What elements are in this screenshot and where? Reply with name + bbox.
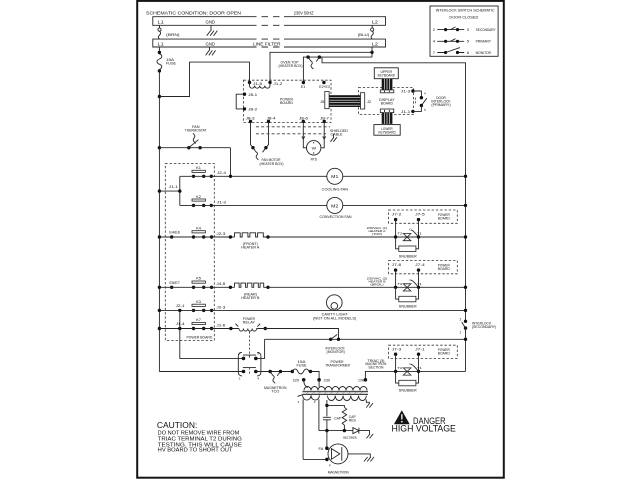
svg-text:BOARD: BOARD xyxy=(438,217,451,221)
svg-text:(SECONDARY): (SECONDARY) xyxy=(472,325,496,329)
svg-text:4: 4 xyxy=(257,376,259,380)
svg-text:LINE FILTER: LINE FILTER xyxy=(253,42,281,47)
cavity light xyxy=(313,295,356,321)
wire: L2 to J1-2 riser xyxy=(270,52,372,82)
filament leads xyxy=(303,399,319,459)
svg-text:J1-6: J1-6 xyxy=(216,323,225,327)
svg-text:7: 7 xyxy=(433,50,435,55)
HV capacitor branch xyxy=(323,400,342,431)
svg-text:K2: K2 xyxy=(196,195,201,199)
svg-text:INTERLOCK SWITCH SCHEMATIC: INTERLOCK SWITCH SCHEMATIC xyxy=(436,8,495,13)
svg-text:J2-3: J2-3 xyxy=(216,232,225,236)
svg-text:(TOP): (TOP) xyxy=(372,232,382,236)
svg-text:FUSE: FUSE xyxy=(297,363,308,367)
primary winding xyxy=(304,386,367,390)
oven top thermostat (heater box TCO) xyxy=(279,55,322,69)
svg-text:230V 50HZ: 230V 50HZ xyxy=(294,10,314,16)
svg-text:8: 8 xyxy=(257,351,259,355)
svg-text:(PRIMARY): (PRIMARY) xyxy=(431,103,450,107)
relay board dashed box (power board) xyxy=(165,164,214,341)
svg-text:K1: K1 xyxy=(196,166,201,170)
svg-text:J1-1: J1-1 xyxy=(401,110,411,114)
svg-text:GND: GND xyxy=(206,42,216,47)
svg-text:J4-5: J4-5 xyxy=(216,282,225,286)
svg-text:RECTIFIER: RECTIFIER xyxy=(343,436,357,440)
interlock secondary on right rail xyxy=(460,318,497,335)
svg-text:J2-3: J2-3 xyxy=(216,305,225,309)
relay K5 xyxy=(169,277,225,289)
wire: thermostat run to E1 riser xyxy=(303,57,372,82)
svg-text:CONVECTION FAN: CONVECTION FAN xyxy=(320,215,352,219)
svg-text:T1: T1 xyxy=(417,282,422,286)
svg-text:MAGNETRON: MAGNETRON xyxy=(328,471,349,475)
svg-text:J1-5: J1-5 xyxy=(253,82,262,86)
svg-text:J7-4: J7-4 xyxy=(415,263,425,267)
shield ground xyxy=(333,134,335,138)
svg-text:(MONITOR): (MONITOR) xyxy=(327,350,345,354)
svg-text:2: 2 xyxy=(460,318,462,322)
filament winding xyxy=(303,395,320,400)
power board (main) dashed box xyxy=(244,80,332,122)
node: right rail M1 xyxy=(464,175,467,178)
svg-text:J8-1: J8-1 xyxy=(248,93,257,97)
RTD sensor xyxy=(302,121,326,161)
node: rail at fan row xyxy=(158,146,161,149)
relay K3 xyxy=(176,300,226,312)
connector (BLU) between buses xyxy=(358,25,374,39)
upper keyboard ribbon connector xyxy=(382,79,393,90)
interlock monitor wire xyxy=(265,338,466,340)
display board dashed box xyxy=(359,88,414,115)
svg-text:KEYBOARD: KEYBOARD xyxy=(378,131,396,135)
lower keyboard ribbon connector xyxy=(380,109,394,113)
motor M2 convection fan xyxy=(320,197,352,219)
svg-text:DOOR CLOSED: DOOR CLOSED xyxy=(449,14,478,19)
HV winding xyxy=(328,396,367,401)
svg-text:PRIMARY: PRIMARY xyxy=(476,39,492,44)
svg-text:J8-3: J8-3 xyxy=(246,116,255,120)
svg-text:3: 3 xyxy=(467,27,469,32)
svg-text:L2: L2 xyxy=(372,19,379,24)
power relay coil xyxy=(235,317,267,331)
svg-text:SNUBBER: SNUBBER xyxy=(399,389,417,393)
relay K1 xyxy=(192,166,226,178)
svg-text:SECONDARY: SECONDARY xyxy=(476,27,496,32)
caution note xyxy=(157,420,242,454)
core xyxy=(303,391,369,394)
heater box fan motor TCO circuit xyxy=(251,121,284,165)
node: rail junction y=96.5 xyxy=(158,95,161,98)
wire: M2 convection fan row xyxy=(180,204,466,206)
svg-text:K4: K4 xyxy=(196,226,201,230)
door interlock (primary) xyxy=(401,89,451,114)
svg-text:E5/E7: E5/E7 xyxy=(169,281,180,285)
svg-text:SNUBBER: SNUBBER xyxy=(399,254,417,258)
svg-text:J8-6: J8-6 xyxy=(299,116,308,120)
svg-text:SNUBBER: SNUBBER xyxy=(399,305,417,309)
svg-text:1: 1 xyxy=(460,331,462,335)
wire: L2 drop and junction xyxy=(370,47,373,57)
connector (BRN) between buses xyxy=(158,25,180,39)
svg-text:BOARD: BOARD xyxy=(438,267,451,271)
pin J1-2 xyxy=(268,81,271,84)
upper keyboard box xyxy=(374,68,398,79)
15A fuse (transformer primary) xyxy=(291,360,313,374)
vertical link cavity row to relay row xyxy=(179,310,181,328)
node: right rail heater B xyxy=(464,286,467,289)
svg-text:6: 6 xyxy=(239,351,241,355)
svg-text:HEATER A: HEATER A xyxy=(241,246,260,250)
pin J8-1 with link to J8-2 xyxy=(236,94,244,109)
svg-text:POWER BOARD: POWER BOARD xyxy=(187,336,213,340)
svg-text:HIGH VOLTAGE: HIGH VOLTAGE xyxy=(392,424,457,434)
svg-text:RES: RES xyxy=(349,419,357,423)
triac 2 xyxy=(394,270,422,291)
node: rail at cavity light row xyxy=(158,309,161,312)
svg-text:RTD: RTD xyxy=(311,157,318,161)
svg-text:J7-6: J7-6 xyxy=(392,263,402,267)
svg-text:J8-2: J8-2 xyxy=(248,108,257,112)
left L1 rail xyxy=(158,71,160,372)
power transformer xyxy=(293,360,368,404)
wire: monitor wire to relay contact xyxy=(256,339,265,358)
svg-text:L1: L1 xyxy=(158,19,165,24)
svg-text:2: 2 xyxy=(239,376,241,380)
wire: relay contact feed from K7 row xyxy=(180,329,244,359)
primary taps xyxy=(302,378,306,382)
svg-text:J5: J5 xyxy=(320,100,324,104)
page border frame xyxy=(137,1,504,478)
svg-text:J7-2: J7-2 xyxy=(392,213,402,217)
wire: L2 branch down to right rail xyxy=(322,57,466,321)
svg-text:BOARD: BOARD xyxy=(381,102,394,106)
wire: fuse to 230 tap xyxy=(311,372,320,380)
heater B element xyxy=(235,283,270,300)
wire: heater B row right xyxy=(268,286,466,288)
svg-text:230: 230 xyxy=(324,379,331,383)
svg-text:COOLING FAN: COOLING FAN xyxy=(322,187,349,191)
svg-text:THERMOSTAT: THERMOSTAT xyxy=(185,129,207,133)
wire: rail to power board J1-5 xyxy=(159,62,249,96)
motor M1 cooling fan xyxy=(322,168,349,191)
power board box (triac 3) xyxy=(389,345,458,358)
triac 3 xyxy=(394,354,422,375)
interlock switch schematic box (top right) xyxy=(430,6,498,56)
svg-text:E4/E6: E4/E6 xyxy=(169,231,180,235)
bus bar 2 (line filter bus) xyxy=(153,39,386,47)
svg-text:J2-1: J2-1 xyxy=(176,304,185,308)
svg-text:SCHEMATIC CONDITION: DOOR OPEN: SCHEMATIC CONDITION: DOOR OPEN xyxy=(146,10,242,16)
fan thermostat xyxy=(185,125,207,149)
wire: heater B row left xyxy=(159,286,234,288)
svg-text:SECTION: SECTION xyxy=(368,366,384,370)
svg-text:T2: T2 xyxy=(397,282,402,286)
svg-text:HEATER B: HEATER B xyxy=(241,296,260,300)
wire: rail bottom to relay contact xyxy=(159,371,243,373)
node: rail at heater A row xyxy=(158,235,161,238)
svg-text:T2: T2 xyxy=(397,232,402,236)
svg-text:E1: E1 xyxy=(301,85,306,89)
svg-text:(BLU): (BLU) xyxy=(358,32,370,37)
node: right rail M2 xyxy=(464,204,467,207)
svg-text:K5: K5 xyxy=(196,277,201,281)
pin E1 xyxy=(302,81,305,84)
svg-text:M1: M1 xyxy=(331,174,339,179)
bus bar 1 (top supply bus) xyxy=(153,17,386,26)
wire: heater A row left xyxy=(159,236,234,238)
svg-text:CAUTION:: CAUTION: xyxy=(157,420,197,430)
relay K7 (power relay drive) xyxy=(176,318,226,330)
svg-text:E2+E3: E2+E3 xyxy=(319,85,330,89)
svg-text:M2: M2 xyxy=(331,203,339,208)
node: right rail heater A xyxy=(464,235,467,238)
pin E2+E3 xyxy=(322,81,325,84)
svg-text:J7-3: J7-3 xyxy=(392,348,402,352)
wire: COM to right rail (triac 3 row) xyxy=(365,371,465,379)
right rail lower part xyxy=(465,328,467,371)
svg-text:(BROIL): (BROIL) xyxy=(370,282,383,286)
snubber 2 xyxy=(396,287,419,308)
svg-text:T1: T1 xyxy=(417,366,422,370)
lower keyboard box xyxy=(374,125,400,136)
svg-text:CAP: CAP xyxy=(334,417,342,421)
node: rail at power relay row xyxy=(158,327,161,330)
svg-text:J1-2: J1-2 xyxy=(273,82,282,86)
svg-text:TRANSFORMER: TRANSFORMER xyxy=(325,364,350,368)
HV winding ground xyxy=(366,400,373,408)
svg-text:5: 5 xyxy=(424,108,426,112)
wire: M1 cooling fan row xyxy=(180,175,466,177)
triac 1 xyxy=(394,220,422,241)
snubber 1 xyxy=(396,237,419,258)
node: rail at heater B row xyxy=(158,286,161,289)
svg-text:J1-3: J1-3 xyxy=(401,90,411,94)
wire: fan thermostat row xyxy=(159,147,230,149)
svg-text:TCO: TCO xyxy=(271,389,279,393)
svg-text:(HEATER BOX): (HEATER BOX) xyxy=(260,162,284,166)
svg-text:KEYBOARD: KEYBOARD xyxy=(378,74,396,78)
wire: coil to monitor junction xyxy=(257,329,339,340)
svg-text:8: 8 xyxy=(467,50,469,55)
svg-text:220: 220 xyxy=(293,379,300,383)
svg-text:CABLE: CABLE xyxy=(331,133,344,137)
svg-text:W: W xyxy=(312,146,317,150)
svg-text:J8-7: J8-7 xyxy=(320,116,329,120)
vertical link and J1-1 feed xyxy=(179,176,181,205)
magnetron xyxy=(303,431,374,475)
svg-text:J7-5: J7-5 xyxy=(415,213,425,217)
svg-text:L1: L1 xyxy=(158,42,165,47)
svg-text:K3: K3 xyxy=(196,300,201,304)
node: right rail cavity light xyxy=(464,309,467,312)
relay K2 xyxy=(192,195,226,207)
svg-text:HV BOARD TO SHORT OUT: HV BOARD TO SHORT OUT xyxy=(158,447,233,453)
HV rectifier diode xyxy=(319,428,373,441)
svg-text:(HEATER BOX): (HEATER BOX) xyxy=(279,64,303,68)
svg-text:J2: J2 xyxy=(367,100,371,104)
snubber 3 xyxy=(396,371,419,392)
svg-text:L2: L2 xyxy=(372,42,379,47)
shielded cable dashed lines xyxy=(256,127,330,134)
wire: cavity light row xyxy=(159,309,465,311)
horizontal ribbon cable power board to display board xyxy=(320,92,371,110)
pin J1-5 xyxy=(248,81,251,84)
svg-text:(NOT ON ALL MODELS): (NOT ON ALL MODELS) xyxy=(313,317,356,321)
svg-text:J8-4: J8-4 xyxy=(267,116,276,120)
svg-text:5: 5 xyxy=(467,39,469,44)
svg-text:BOARD: BOARD xyxy=(280,101,293,105)
svg-text:J1-3: J1-3 xyxy=(217,200,226,204)
15A fuse on L1 rail xyxy=(157,47,177,73)
wire: heater A row right xyxy=(268,236,466,238)
svg-text:J7-1: J7-1 xyxy=(415,348,425,352)
heater A element xyxy=(235,233,270,250)
power board box (triac 1) xyxy=(389,210,458,223)
relay K4 xyxy=(169,226,225,238)
HV cap resistor branch xyxy=(327,405,357,430)
svg-text:COM: COM xyxy=(358,378,364,382)
wire: power relay row xyxy=(159,328,239,330)
danger high voltage warning xyxy=(392,410,457,433)
wire: riser to M1 row xyxy=(230,148,232,177)
svg-text:2: 2 xyxy=(433,27,435,32)
svg-text:F: F xyxy=(329,463,331,467)
line filter coil inside power board xyxy=(250,83,271,89)
svg-text:4: 4 xyxy=(424,92,426,96)
svg-text:FUSE: FUSE xyxy=(166,62,177,66)
magnetron TCO xyxy=(256,370,292,394)
pin J8-2 xyxy=(243,107,246,110)
svg-text:BOARD: BOARD xyxy=(438,352,451,356)
svg-text:J2-4: J2-4 xyxy=(217,171,226,175)
svg-text:K7: K7 xyxy=(196,318,201,322)
power board box (triac 2) xyxy=(389,261,458,274)
svg-text:(BRN): (BRN) xyxy=(166,32,180,37)
svg-text:MONITOR: MONITOR xyxy=(476,50,492,55)
svg-text:J1-1: J1-1 xyxy=(169,185,178,189)
node: right rail monitor xyxy=(464,338,467,341)
svg-text:T2: T2 xyxy=(397,366,402,370)
svg-text:T1: T1 xyxy=(417,232,422,236)
ground symbol under bus2 GND xyxy=(206,47,216,55)
power relay contact block xyxy=(238,332,261,381)
svg-text:RELAY: RELAY xyxy=(243,321,256,325)
ground symbol under bus1 GND xyxy=(207,25,218,35)
svg-text:GND: GND xyxy=(206,19,216,24)
